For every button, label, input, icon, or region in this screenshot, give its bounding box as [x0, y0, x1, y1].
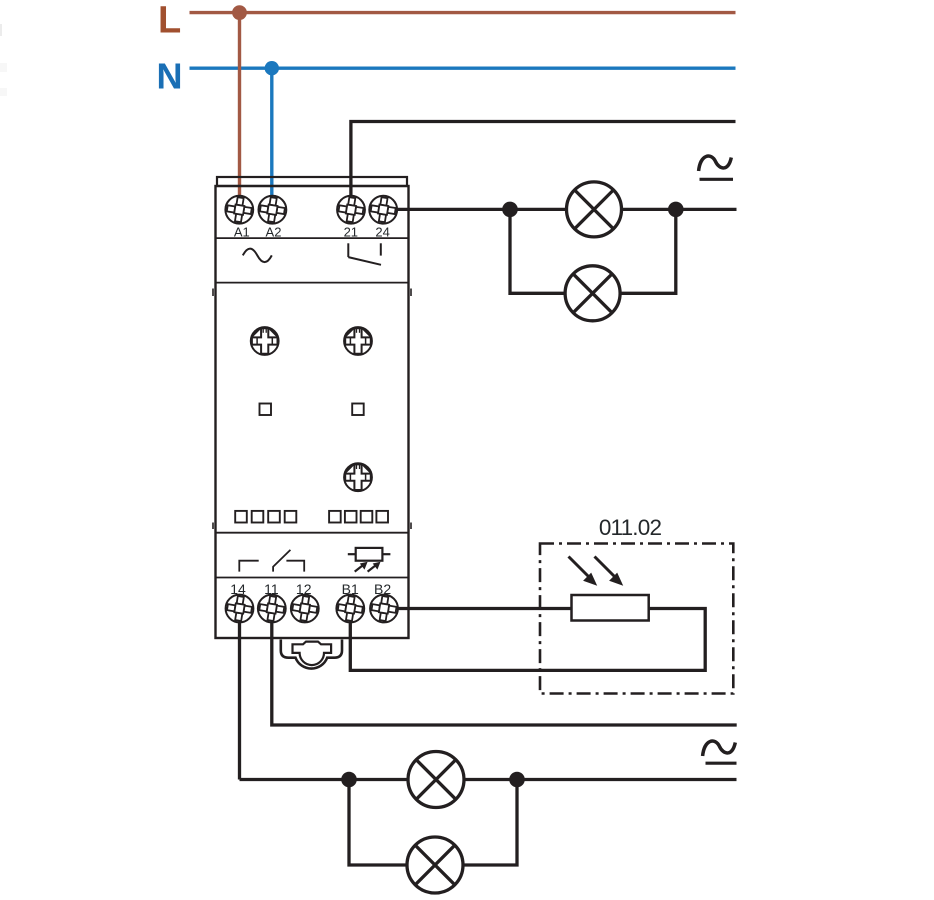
case screw right — [344, 327, 372, 355]
terminal screw 14 — [226, 595, 254, 623]
svg-text:011.02: 011.02 — [599, 515, 662, 540]
node lamp bottom right — [509, 772, 525, 788]
terminal screw B2 — [370, 595, 398, 623]
DIN rail clip — [281, 640, 342, 669]
module separator lines — [216, 238, 409, 577]
wire L phase line — [190, 11, 736, 14]
terminal screw 12 — [291, 595, 319, 623]
wire terminal 21 riser and top feed — [351, 122, 736, 198]
terminal screw 11 — [258, 595, 286, 623]
photocell unit dash-dot box — [540, 544, 733, 694]
wire lamp parallel branch bottom — [349, 780, 517, 866]
wire L drop to A1 — [238, 13, 241, 199]
wire B2 to sensor — [384, 607, 572, 610]
contact symbol 21-24 — [348, 243, 381, 264]
photoresistor body — [572, 595, 649, 621]
svg-text:21: 21 — [344, 225, 358, 240]
photoresistor light arrows — [569, 557, 624, 586]
indicator square right — [352, 404, 364, 416]
node lamp top right — [668, 202, 684, 218]
node lamp bottom left — [341, 772, 357, 788]
svg-text:L: L — [158, 0, 181, 42]
wire B1 down right and up to sensor — [350, 609, 705, 671]
terminal screw 21 — [337, 196, 365, 224]
wire lamp parallel branch top — [510, 209, 676, 293]
lamp E3 — [408, 752, 464, 808]
lamp E4 — [407, 837, 463, 893]
wire 11 down and right — [272, 609, 737, 726]
svg-text:N: N — [157, 56, 183, 97]
wire 14 down to lamp line — [238, 609, 241, 780]
light sensor arrows — [355, 562, 381, 572]
wire 24 to lamp group — [397, 208, 737, 211]
svg-text:A1: A1 — [234, 225, 250, 240]
contact symbol 14 bracket — [239, 561, 258, 572]
wire N neutral line — [190, 66, 736, 69]
terminal screw A1 — [225, 196, 253, 224]
terminal screw B1 — [336, 595, 364, 623]
node L junction — [232, 5, 247, 20]
node N junction — [265, 61, 279, 75]
svg-text:24: 24 — [375, 225, 389, 240]
AC source symbol bottom right — [703, 741, 736, 756]
contact symbol 12 bracket — [286, 561, 304, 572]
indicator square left — [260, 404, 272, 416]
vent squares left group — [235, 511, 296, 523]
terminal screw A2 — [259, 196, 287, 224]
svg-text:A2: A2 — [266, 225, 282, 240]
node lamp top left — [502, 202, 518, 218]
lamp E1 — [567, 182, 622, 237]
AC source symbol top right — [699, 156, 732, 171]
relay module outline — [213, 177, 411, 638]
light sensor symbol box — [348, 548, 391, 561]
vent squares right group — [329, 511, 388, 523]
case screw left — [251, 327, 279, 355]
wire N drop to A2 — [270, 68, 273, 199]
case screw lower — [344, 463, 372, 491]
edge artifact marks — [0, 24, 2, 36]
wire bottom lamp line — [240, 778, 737, 781]
coil AC sine symbol — [243, 249, 272, 263]
contact symbol 11 arm — [273, 550, 290, 572]
lamp E2 — [565, 266, 620, 321]
terminal screw 24 — [369, 196, 397, 224]
